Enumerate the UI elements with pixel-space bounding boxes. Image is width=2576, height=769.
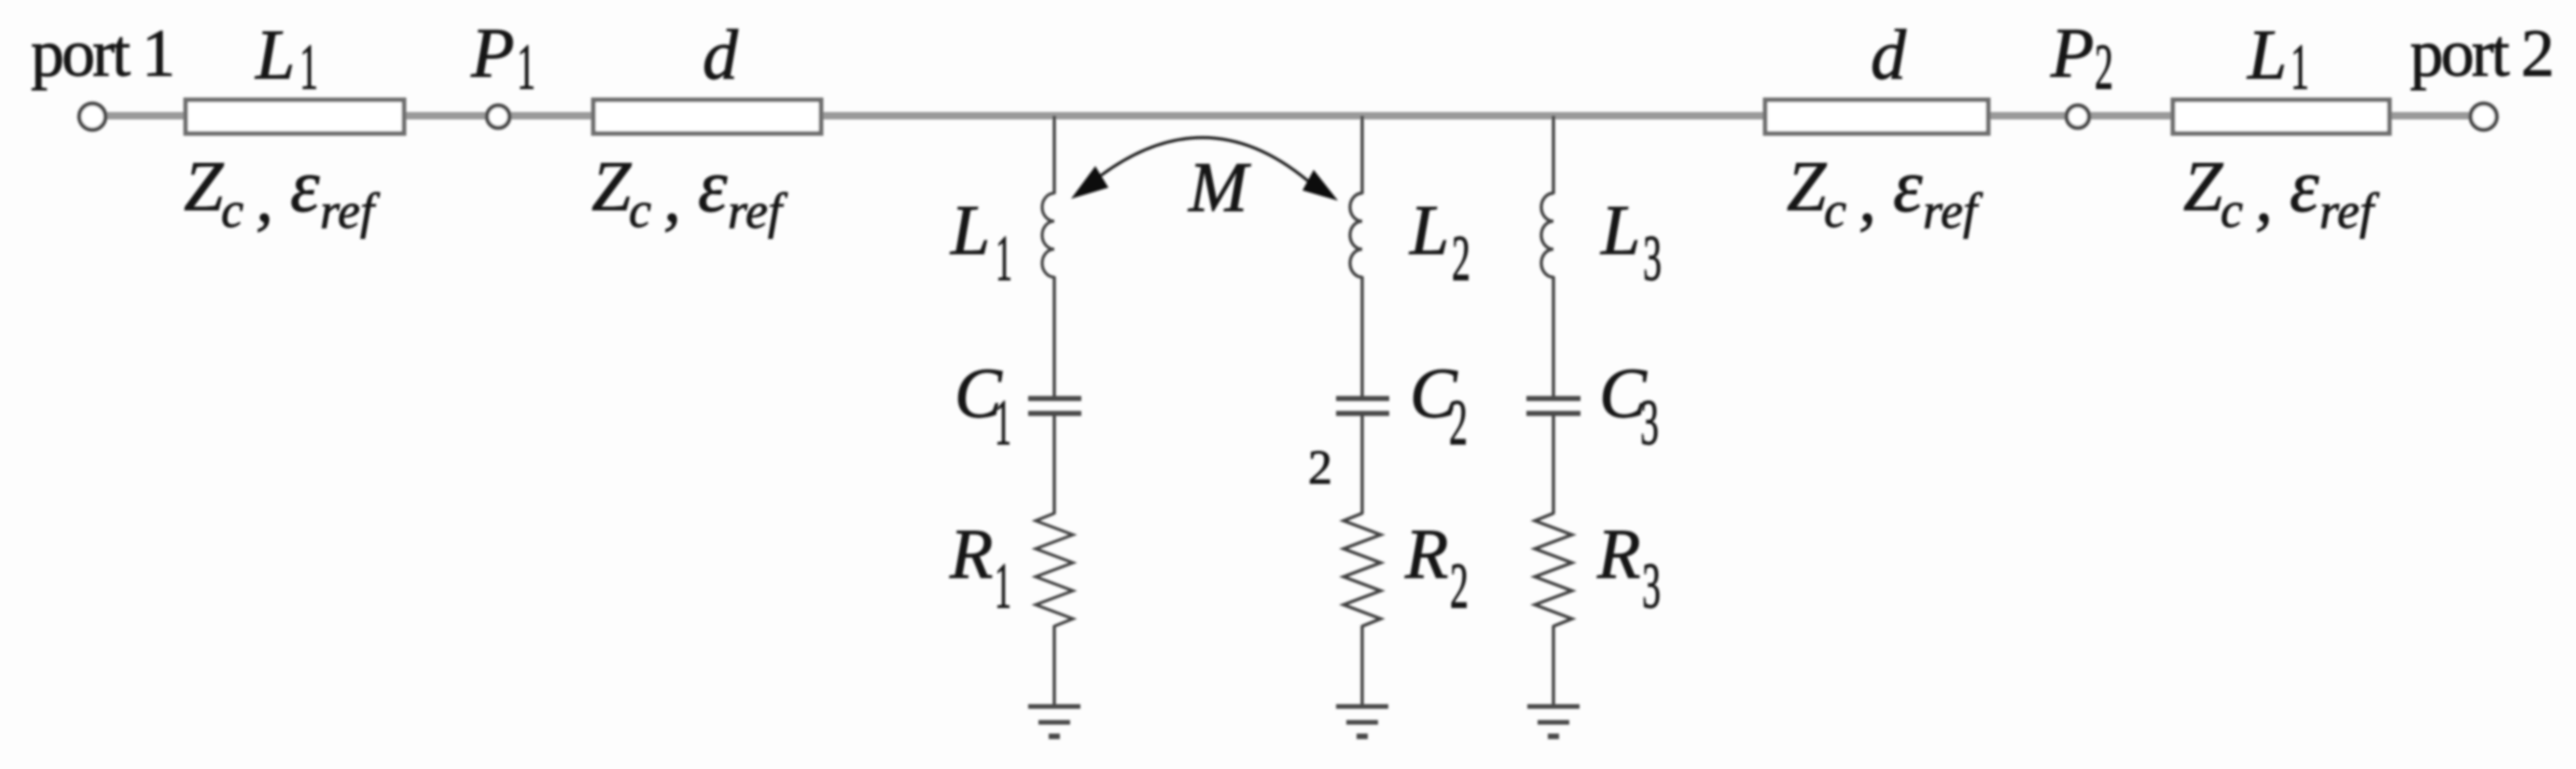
wire branch 2 capacitor to resistor: [1360, 415, 1363, 514]
inductor L3 coil: [1541, 193, 1553, 277]
svg-text:P: P: [470, 14, 514, 92]
svg-text:1: 1: [299, 32, 318, 104]
wire main horizontal line: [104, 112, 2472, 119]
svg-text:R: R: [1596, 515, 1640, 594]
label C2: [1410, 355, 1468, 459]
label L1 above left box: [255, 16, 318, 104]
svg-text:2: 2: [2095, 32, 2113, 104]
port 1 terminal circle: [79, 104, 105, 130]
node P2 circle: [2067, 105, 2089, 128]
wire branch 1 vertical top: [1052, 116, 1055, 194]
wire branch 3 vertical top: [1552, 116, 1554, 194]
svg-text:,: ,: [2255, 159, 2273, 237]
svg-text:1: 1: [995, 387, 1011, 459]
transmission line box L1 (left): [186, 100, 404, 133]
svg-text:L: L: [1409, 191, 1449, 270]
svg-text:port 1: port 1: [31, 16, 173, 91]
capacitor C2 plates: [1336, 396, 1389, 401]
svg-text:d: d: [1871, 16, 1907, 94]
label L2 branch: [1409, 191, 1470, 295]
svg-text:ε: ε: [1893, 146, 1923, 228]
svg-text:Z: Z: [1787, 147, 1827, 226]
ground symbol branch 2: [1336, 705, 1388, 709]
svg-text:ref: ref: [728, 183, 788, 239]
svg-text:ref: ref: [2319, 183, 2380, 239]
label Zc , eref under box 3: [1787, 146, 1984, 239]
ground symbol branch 3: [1527, 705, 1580, 709]
label P2: [2050, 14, 2113, 104]
svg-text:c: c: [629, 182, 651, 238]
wire branch 2 resistor to ground: [1360, 625, 1363, 706]
svg-text:2: 2: [1450, 551, 1469, 622]
svg-text:R: R: [1404, 515, 1448, 594]
svg-text:3: 3: [1640, 387, 1659, 459]
svg-text:1: 1: [995, 551, 1011, 622]
wire branch 1 resistor to ground: [1052, 625, 1055, 706]
port 2 terminal circle: [2471, 104, 2497, 130]
svg-text:c: c: [1824, 182, 1846, 238]
svg-text:L: L: [2247, 16, 2287, 94]
transmission line box d (right): [1765, 100, 1988, 133]
svg-text:1: 1: [2291, 32, 2309, 104]
capacitor C1 plates: [1028, 396, 1081, 401]
wire branch 2 vertical top: [1360, 116, 1363, 194]
svg-text:ε: ε: [290, 146, 320, 228]
wire branch 3 resistor to ground: [1552, 625, 1554, 706]
svg-text:d: d: [703, 16, 739, 94]
inductor L2 coil: [1350, 193, 1362, 277]
label L1 above right box: [2247, 16, 2309, 104]
svg-text:,: ,: [663, 159, 681, 237]
wire branch 2 inductor to capacitor: [1360, 276, 1363, 397]
svg-text:ref: ref: [1923, 183, 1984, 239]
label Zc , eref under box 2: [592, 146, 788, 239]
svg-text:Z: Z: [184, 147, 224, 226]
svg-text:2: 2: [1452, 223, 1470, 295]
svg-text:Z: Z: [592, 147, 632, 226]
wire branch 1 capacitor to resistor: [1052, 415, 1055, 514]
svg-text:ε: ε: [698, 146, 728, 228]
wire branch 1 inductor to capacitor: [1052, 276, 1055, 397]
svg-text:c: c: [2221, 182, 2243, 238]
transmission line box L1 (right): [2173, 100, 2389, 133]
resistor R3 zigzag: [1535, 513, 1572, 626]
label R3: [1596, 515, 1661, 622]
label Zc , eref under box 1: [184, 146, 381, 239]
svg-text:,: ,: [256, 159, 273, 237]
label L1 branch: [950, 191, 1012, 295]
svg-text:2: 2: [1449, 387, 1468, 459]
svg-text:Z: Z: [2183, 147, 2223, 226]
resistor R2 zigzag: [1344, 513, 1381, 626]
svg-text:L: L: [1600, 191, 1640, 270]
mutual coupling arrow arc M: [1101, 137, 1308, 181]
svg-text:R: R: [949, 515, 993, 594]
svg-text:,: ,: [1859, 159, 1876, 237]
svg-text:port 2: port 2: [2410, 16, 2552, 91]
svg-text:L: L: [255, 16, 295, 94]
ground symbol branch 1: [1028, 705, 1080, 709]
svg-text:P: P: [2050, 14, 2094, 92]
capacitor C3 plates: [1526, 396, 1580, 401]
svg-text:L: L: [950, 191, 990, 270]
svg-text:3: 3: [1642, 551, 1661, 622]
label C3: [1599, 355, 1659, 459]
transmission line box d (left): [593, 100, 821, 133]
node P1 circle: [487, 105, 509, 128]
wire branch 3 capacitor to resistor: [1552, 415, 1554, 514]
label P1: [470, 14, 536, 104]
label L3 branch: [1600, 191, 1662, 295]
svg-text:3: 3: [1643, 223, 1662, 295]
wire branch 3 inductor to capacitor: [1552, 276, 1554, 397]
svg-text:M: M: [1188, 148, 1251, 227]
svg-text:2: 2: [1308, 441, 1332, 495]
svg-text:c: c: [221, 182, 244, 238]
svg-text:1: 1: [996, 223, 1012, 295]
label R2: [1404, 515, 1469, 622]
inductor L1 coil: [1042, 193, 1054, 277]
svg-text:ε: ε: [2290, 146, 2319, 228]
svg-text:ref: ref: [320, 183, 381, 239]
resistor R1 zigzag: [1036, 513, 1073, 626]
label R1: [949, 515, 1011, 622]
label C1: [954, 355, 1011, 459]
svg-text:1: 1: [517, 32, 536, 104]
label Zc , eref under box 4: [2183, 146, 2380, 239]
